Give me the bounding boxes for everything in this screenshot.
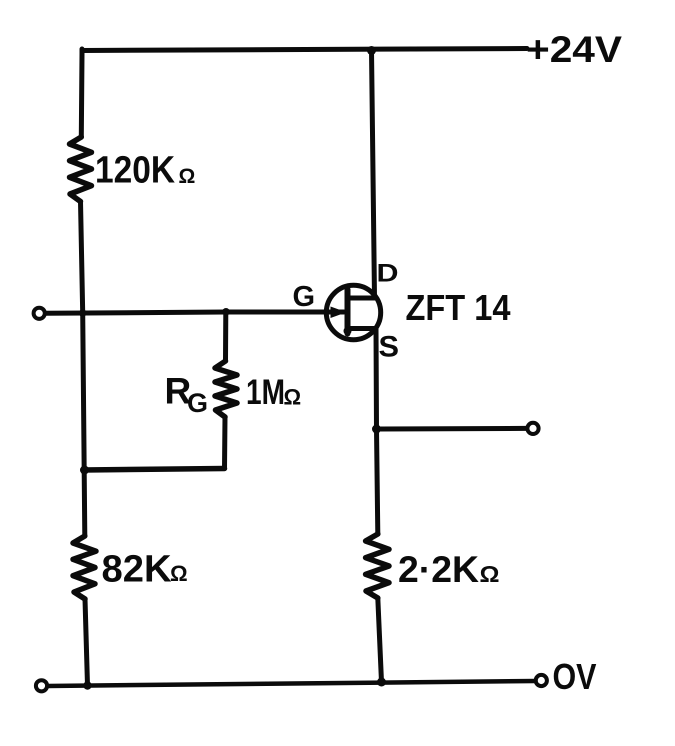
svg-text:Ω: Ω: [480, 561, 500, 587]
wire top +24V supply rail: [82, 49, 527, 51]
node drain junction on top rail: [367, 46, 376, 55]
svg-text:S: S: [379, 331, 400, 364]
input terminal: [34, 308, 45, 319]
resistor R1 120K zigzag: [70, 137, 92, 202]
wire RG top lead: [223, 312, 228, 361]
wire RG bottom lead: [222, 417, 228, 469]
svg-text:Ω: Ω: [179, 165, 196, 188]
node gate / RG top junction: [222, 308, 230, 316]
wire left branch upper (rail to R1): [79, 49, 85, 137]
wire left branch bottom (R2 to rail): [85, 599, 88, 686]
svg-text:Ω: Ω: [170, 561, 188, 586]
svg-text:OV: OV: [553, 656, 597, 697]
node bottom rail junction: [377, 678, 386, 687]
svg-text:G: G: [293, 281, 316, 313]
svg-text:G: G: [187, 388, 208, 418]
output terminal: [527, 423, 538, 434]
svg-text:2·2K: 2·2K: [398, 549, 479, 590]
wire source upper (transistor to output node): [374, 329, 380, 430]
svg-text:ZFT 14: ZFT 14: [406, 287, 511, 328]
svg-text:D: D: [377, 260, 399, 288]
svg-text:Ω: Ω: [284, 385, 302, 410]
svg-text:+24V: +24V: [526, 29, 622, 70]
node RG return junction: [80, 466, 89, 475]
wire RG return to divider: [83, 469, 225, 471]
wire input to gate: [46, 312, 345, 313]
wire source lower (output node to R3): [377, 429, 378, 534]
node bottom-left rail junction: [83, 681, 91, 689]
wire left branch lower (input node to R2): [83, 313, 85, 536]
node input / divider junction: [79, 309, 87, 317]
transistor Q1 ZFT 14 FET symbol: [326, 285, 380, 339]
svg-text:120K: 120K: [95, 150, 175, 192]
wire drain (top rail to transistor): [372, 51, 375, 298]
terminal 0V right: [536, 675, 547, 686]
terminal 0V left: [36, 680, 47, 691]
resistor RG 1M zigzag: [215, 361, 237, 417]
svg-text:1M: 1M: [246, 373, 285, 412]
wire output: [377, 426, 527, 432]
wire 0V ground rail: [48, 681, 536, 686]
wire R3 bottom lead: [378, 598, 382, 682]
wire left branch middle (R1 to input node): [81, 202, 83, 314]
resistor R3 2.2K zigzag: [366, 534, 389, 598]
resistor R2 82K zigzag: [73, 536, 96, 599]
svg-text:82K: 82K: [102, 549, 173, 591]
node output junction: [372, 425, 381, 434]
